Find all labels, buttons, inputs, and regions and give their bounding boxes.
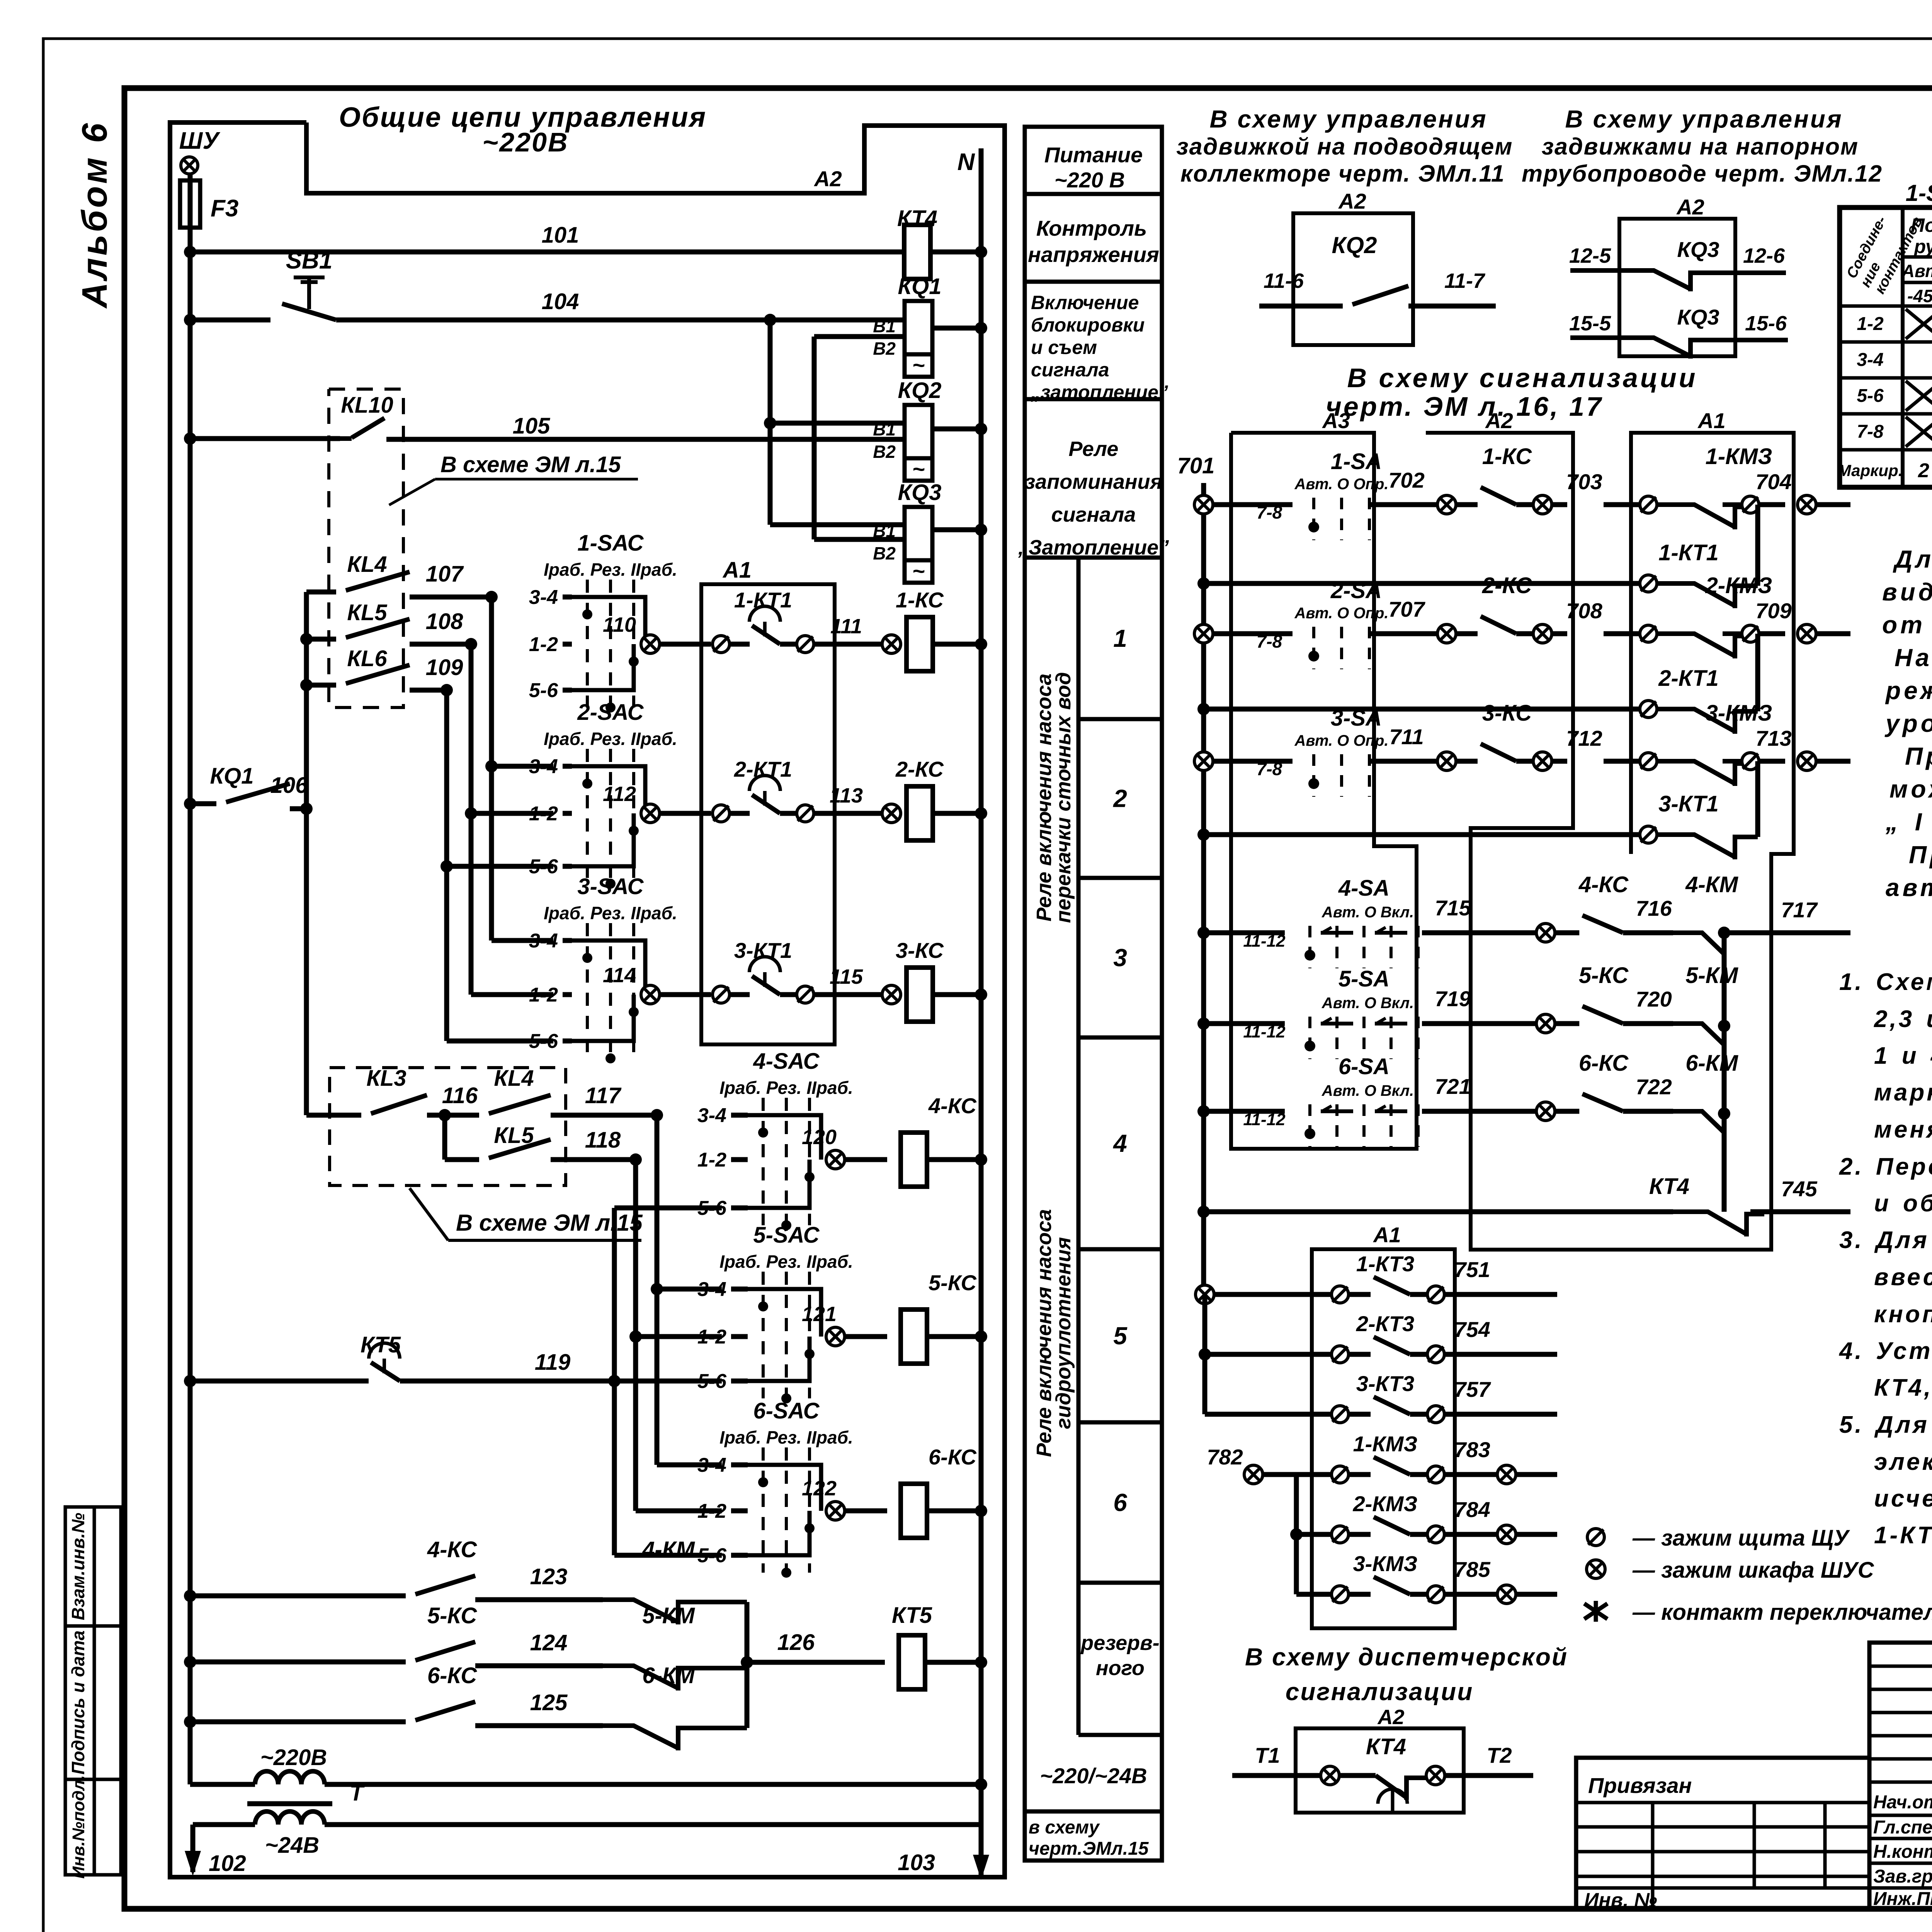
svg-text:Авт. О Опр.: Авт. О Опр.	[1294, 732, 1388, 749]
svg-text:5-КС: 5-КС	[929, 1270, 977, 1295]
function column table	[1025, 127, 1162, 1861]
svg-text:1-2: 1-2	[529, 633, 558, 656]
svg-text:При автоматическом режиме: При автоматическом режиме каждый насос	[1905, 742, 1932, 770]
svg-text:101: 101	[542, 223, 579, 248]
svg-text:гидроуплотнения: гидроуплотнения	[1052, 1237, 1075, 1429]
svg-text:В2: В2	[873, 442, 896, 462]
contact 6-КС	[184, 1716, 196, 1728]
svg-text:3-КМЗ: 3-КМЗ	[1353, 1551, 1418, 1576]
svg-text:Контроль: Контроль	[1036, 216, 1147, 240]
svg-text:2-КТ1: 2-КТ1	[734, 757, 792, 781]
svg-text:4-SАС: 4-SАС	[753, 1049, 820, 1074]
svg-text:~220 В: ~220 В	[1054, 168, 1125, 192]
svg-text:А1: А1	[722, 558, 752, 583]
svg-text:ШУ: ШУ	[179, 128, 221, 154]
svg-text:4: 4	[1112, 1129, 1127, 1157]
svg-text:сигнала: сигнала	[1031, 359, 1109, 381]
svg-text:7-8: 7-8	[1857, 422, 1884, 442]
svg-text:114: 114	[603, 964, 636, 987]
svg-text:„ I рабочий ”, „ II рабочий ”: „ I рабочий ”, „ II рабочий ” и „ Резерв…	[1885, 808, 1932, 836]
svg-text:719: 719	[1435, 986, 1471, 1011]
svg-text:2-КС: 2-КС	[895, 757, 944, 781]
svg-text:запоминания: запоминания	[1025, 470, 1163, 493]
svg-text:121: 121	[802, 1303, 837, 1326]
svg-text:1-2: 1-2	[1857, 314, 1884, 334]
svg-text:117: 117	[585, 1083, 622, 1108]
svg-text:~: ~	[912, 353, 925, 377]
contact KL10	[184, 432, 196, 445]
attribute box Подпись и дата	[65, 1626, 121, 1779]
wire 110 output 1	[641, 635, 660, 653]
svg-text:4-КМ: 4-КМ	[1685, 872, 1738, 897]
svg-text:КL5: КL5	[347, 600, 387, 625]
svg-text:1-КТ1... 3-КТ1 принять соо: 1-КТ1... 3-КТ1 принять соответственно 3,…	[1874, 1522, 1932, 1549]
svg-text:7-8: 7-8	[1257, 631, 1282, 651]
contact KL5 lower	[442, 1115, 447, 1160]
svg-text:~220В: ~220В	[260, 1745, 327, 1770]
svg-text:А3: А3	[1321, 408, 1350, 433]
svg-text:785: 785	[1454, 1557, 1490, 1582]
svg-text:125: 125	[530, 1690, 568, 1715]
svg-text:106: 106	[270, 773, 308, 798]
svg-text:751: 751	[1454, 1257, 1490, 1282]
wire feeder 3-4 chain lower	[655, 1115, 660, 1465]
svg-text:А2: А2	[813, 167, 842, 191]
svg-text:713: 713	[1755, 726, 1791, 750]
dashed box KL10 KL4-KL6	[329, 389, 403, 707]
svg-text:перекачки сточных вод: перекачки сточных вод	[1052, 672, 1075, 923]
time contact KT5 on wire 119	[184, 1375, 196, 1387]
svg-text:715: 715	[1435, 896, 1471, 920]
svg-text:4-SА: 4-SА	[1338, 876, 1389, 901]
svg-text:Нач.отд.: Нач.отд.	[1873, 1792, 1932, 1813]
time contact 2-КТ1 signal	[1197, 703, 1210, 715]
svg-text:КQ1: КQ1	[898, 274, 941, 299]
svg-text:Т2: Т2	[1486, 1743, 1512, 1767]
svg-text:12-6: 12-6	[1743, 244, 1785, 267]
svg-text:11-12: 11-12	[1243, 932, 1286, 951]
svg-text:~24В: ~24В	[265, 1833, 319, 1858]
svg-text:КL3: КL3	[366, 1066, 406, 1091]
left schematic enclosure box	[170, 122, 1005, 1877]
time contact KT4 on wire 745	[1197, 1206, 1210, 1218]
column cell ~220/~24В	[1025, 1810, 1162, 1814]
svg-text:напряжения: напряжения	[1028, 242, 1159, 267]
svg-text:1-КМЗ: 1-КМЗ	[1706, 444, 1772, 469]
svg-text:4-КС: 4-КС	[928, 1094, 977, 1118]
svg-text:Авт. О Опр.: Авт. О Опр.	[1294, 476, 1388, 493]
push-button SB1	[184, 314, 196, 326]
wire 102 with arrow	[190, 1825, 196, 1872]
contact KL5	[300, 633, 313, 645]
svg-text:3-КС: 3-КС	[896, 938, 944, 963]
wire 122 output 6	[826, 1502, 845, 1520]
svg-text:А2: А2	[1676, 195, 1704, 219]
svg-text:3: 3	[1113, 944, 1127, 972]
svg-text:102: 102	[209, 1851, 246, 1876]
svg-text:В схему управления: В схему управления	[1209, 105, 1487, 133]
svg-text:11-7: 11-7	[1444, 269, 1486, 293]
svg-text:2,3 и 5,6 схемы соответс: 2,3 и 5,6 схемы соответственно аналогичн…	[1874, 1006, 1932, 1032]
title block Привязан table	[1576, 1758, 1869, 1909]
svg-text:119: 119	[535, 1350, 570, 1375]
svg-text:111: 111	[830, 615, 862, 638]
svg-text:Авт. О Опр.: Авт. О Опр.	[1294, 605, 1388, 622]
svg-text:F3: F3	[211, 195, 238, 222]
svg-text:Насосы гидроуплотнения в: Насосы гидроуплотнения в автоматическом	[1895, 644, 1932, 672]
svg-text:Реле: Реле	[1069, 437, 1119, 461]
svg-text:3-4: 3-4	[529, 586, 558, 609]
svg-text:782: 782	[1207, 1445, 1243, 1469]
svg-text:КQ3: КQ3	[1677, 237, 1719, 262]
svg-text:В схеме ЭМ л.15: В схеме ЭМ л.15	[440, 452, 621, 477]
wire KQ outputs to N	[932, 326, 981, 331]
svg-text:704: 704	[1755, 469, 1791, 494]
svg-text:ввести блокировку от зат: ввести блокировку от затопления нажатием	[1874, 1264, 1932, 1291]
time contact 1-КТ1 signal	[1197, 577, 1210, 590]
svg-text:4-КМ: 4-КМ	[642, 1537, 695, 1562]
svg-text:2-КТ3: 2-КТ3	[1356, 1311, 1414, 1336]
svg-text:Т1: Т1	[1255, 1743, 1280, 1767]
svg-text:КQ3: КQ3	[898, 480, 941, 505]
attribute box Взам.инв.№	[65, 1507, 121, 1626]
svg-text:Авт. О Вкл.: Авт. О Вкл.	[1321, 904, 1414, 921]
svg-text:105: 105	[513, 413, 551, 439]
device box A1 (left schematic)	[701, 584, 835, 1044]
svg-text:784: 784	[1454, 1497, 1490, 1522]
wire feeder 5-6 chain	[444, 690, 449, 1041]
svg-text:7-8: 7-8	[1257, 502, 1282, 522]
svg-text:120: 120	[802, 1126, 837, 1149]
wire 124	[475, 1663, 603, 1668]
svg-text:черт.ЭМл.15: черт.ЭМл.15	[1029, 1838, 1149, 1859]
wire feeder 3-4 chain	[489, 597, 494, 940]
wire 719 rung 5-SA	[1197, 1017, 1210, 1030]
svg-text:1-КТ1: 1-КТ1	[1658, 540, 1719, 565]
svg-text:3-4: 3-4	[697, 1104, 726, 1127]
svg-text:черт. ЭМ л. 16, 17: черт. ЭМ л. 16, 17	[1326, 391, 1603, 422]
svg-text:2-КМЗ: 2-КМЗ	[1353, 1492, 1418, 1516]
svg-text:и общих цепей.: и общих цепей.	[1874, 1190, 1932, 1217]
wire feeder 1-2 chain lower	[633, 1160, 638, 1511]
svg-text:В2: В2	[873, 338, 896, 359]
attribute box Инв.№подл.	[65, 1779, 121, 1875]
contact 5-КС	[184, 1656, 196, 1668]
svg-text:5-КС: 5-КС	[1579, 963, 1629, 988]
svg-text:124: 124	[530, 1630, 568, 1655]
wire 121 output 5	[826, 1327, 845, 1346]
svg-text:109: 109	[426, 655, 463, 680]
svg-text:2: 2	[1918, 459, 1929, 482]
svg-text:701: 701	[1177, 453, 1215, 478]
svg-text:717: 717	[1781, 898, 1818, 922]
wire 105	[386, 437, 905, 442]
svg-text:N: N	[957, 149, 975, 175]
transformer T core	[247, 1801, 332, 1806]
svg-text:1-SАС: 1-SАС	[577, 531, 644, 556]
wire 702 rung 1-SA	[1194, 495, 1213, 514]
svg-text:6-КМ: 6-КМ	[642, 1663, 695, 1688]
svg-text:5-КС: 5-КС	[427, 1603, 477, 1628]
svg-text:Авт. О Вкл.: Авт. О Вкл.	[1321, 995, 1414, 1012]
svg-text:Маркир.: Маркир.	[1838, 461, 1903, 480]
svg-text:меняются на 2,3 и 5,6: меняются на 2,3 и 5,6.	[1874, 1116, 1932, 1143]
svg-text:автоматически включается р: автоматически включается резервный	[1886, 874, 1932, 901]
svg-text:исчезновения напряжения , в: исчезновения напряжения , выдержку време…	[1874, 1485, 1932, 1512]
svg-text:5-SАС: 5-SАС	[753, 1223, 820, 1248]
wire 123	[475, 1597, 603, 1602]
wire 120 output 4	[826, 1150, 845, 1169]
svg-text:— контакт переключателя н: — контакт переключателя не используется	[1632, 1600, 1932, 1625]
wire 112 output 2	[641, 804, 660, 823]
svg-text:А2: А2	[1485, 408, 1513, 433]
svg-text:5-6: 5-6	[1857, 386, 1884, 406]
svg-text:блокировки: блокировки	[1031, 314, 1145, 336]
svg-text:707: 707	[1388, 597, 1425, 621]
svg-text:15-5: 15-5	[1569, 312, 1611, 335]
svg-text:Для насосов 1... 6 предусм: Для насосов 1... 6 предусматривается два	[1893, 545, 1932, 573]
svg-text:745: 745	[1781, 1177, 1817, 1201]
column cells numbered 1-6	[1077, 558, 1081, 1735]
svg-text:757: 757	[1454, 1377, 1491, 1401]
wire B1 feeds	[768, 320, 773, 525]
wire 114 output 3	[641, 985, 660, 1004]
svg-text:Н.контр.: Н.контр.	[1873, 1842, 1932, 1862]
svg-text:1-КТ1: 1-КТ1	[734, 588, 792, 612]
svg-text:Iраб. Рез. IIраб.: Iраб. Рез. IIраб.	[544, 560, 677, 580]
svg-text:11-6: 11-6	[1264, 269, 1304, 293]
svg-text:Гл.спец.: Гл.спец.	[1873, 1817, 1932, 1838]
svg-text:2: 2	[1113, 785, 1127, 813]
svg-text:— зажим шкафа ШУС: — зажим шкафа ШУС	[1632, 1558, 1874, 1583]
svg-text:задвижкой на подводящем: задвижкой на подводящем	[1177, 133, 1513, 160]
svg-text:электродвигателей насосов: электродвигателей насосов 1... 3 после к…	[1874, 1449, 1932, 1475]
svg-text:А2: А2	[1338, 189, 1366, 213]
svg-text:103: 103	[898, 1850, 935, 1875]
svg-text:5. Для предотвращения одно: 5. Для предотвращения одновременного сам…	[1839, 1412, 1932, 1438]
svg-text:Инв.№подл.: Инв.№подл.	[69, 1775, 88, 1879]
vertical feeder from 106	[304, 592, 309, 1115]
wire 745	[1750, 1209, 1850, 1214]
time contact 3-КТ1 signal	[1197, 828, 1210, 841]
contact KQ1 on wire 106	[184, 798, 196, 810]
svg-text:2-SАС: 2-SАС	[577, 700, 644, 725]
svg-text:7-8: 7-8	[1257, 759, 1282, 779]
svg-text:5-КМ: 5-КМ	[1685, 963, 1738, 988]
svg-text:А1: А1	[1372, 1223, 1401, 1247]
svg-text:При аварийном отключении: При аварийном отключении рабочего насоса	[1909, 841, 1932, 869]
svg-text:КL4: КL4	[347, 552, 387, 577]
svg-text:КL6: КL6	[347, 646, 387, 671]
bus ШУ vertical	[188, 228, 193, 1784]
svg-text:6-КС: 6-КС	[427, 1663, 477, 1688]
svg-text:754: 754	[1454, 1317, 1490, 1342]
svg-text:Авт. О Вкл.: Авт. О Вкл.	[1321, 1082, 1414, 1099]
svg-text:КТ4, КТ5 - 3с и уточнить: КТ4, КТ5 - 3с и уточнить при наладке и э…	[1874, 1374, 1932, 1401]
svg-text:107: 107	[426, 561, 464, 587]
svg-text:113: 113	[830, 784, 863, 807]
wire 717	[1718, 927, 1730, 939]
svg-text:2-КТ1: 2-КТ1	[1658, 666, 1719, 691]
bus for KT3 rungs	[1202, 1294, 1207, 1414]
svg-text:Альбом 6: Альбом 6	[75, 121, 114, 309]
svg-text:6-SА: 6-SА	[1338, 1054, 1389, 1079]
svg-text:КQ1: КQ1	[210, 764, 253, 789]
svg-text:6-КМ: 6-КМ	[1685, 1051, 1738, 1076]
svg-text:~: ~	[912, 559, 925, 583]
svg-text:~220/~24В: ~220/~24В	[1040, 1764, 1147, 1788]
fuse F3	[188, 174, 193, 252]
legend зажим щита ЩУ	[1587, 1529, 1604, 1546]
svg-text:В схему диспетчерской: В схему диспетчерской	[1245, 1643, 1568, 1671]
svg-text:Iраб. Рез. IIраб.: Iраб. Рез. IIраб.	[544, 729, 677, 749]
svg-text:КТ4: КТ4	[1366, 1734, 1406, 1759]
svg-text:Привязан: Привязан	[1588, 1773, 1692, 1798]
svg-text:720: 720	[1636, 987, 1672, 1011]
wire feeder 1-2 chain	[469, 644, 474, 995]
wire 104	[336, 318, 770, 323]
svg-text:126: 126	[777, 1630, 815, 1655]
svg-text:КQ2: КQ2	[1332, 232, 1377, 258]
svg-text:КQ3: КQ3	[1677, 305, 1719, 329]
svg-text:721: 721	[1435, 1074, 1471, 1099]
svg-text:уровня в баке разрыва: уровня в баке разрыва струи.	[1884, 709, 1932, 737]
contact KL6	[300, 679, 313, 691]
svg-text:В1: В1	[873, 419, 896, 439]
svg-text:2. Перечень элементов при: 2. Перечень элементов приведен для приво…	[1839, 1153, 1932, 1180]
svg-text:маркировки цепей , обозначаю: маркировки цепей , обозначающие номер пр…	[1874, 1079, 1932, 1106]
svg-text:КТ5: КТ5	[892, 1603, 932, 1628]
svg-text:3-4: 3-4	[1857, 350, 1883, 370]
wire 117	[551, 1113, 657, 1118]
svg-text:702: 702	[1388, 468, 1424, 492]
svg-text:А2: А2	[1377, 1706, 1404, 1729]
svg-text:В1: В1	[873, 521, 896, 541]
wire 107	[410, 595, 492, 600]
svg-text:Взам.инв.№: Взам.инв.№	[68, 1513, 88, 1621]
svg-text:вида управления: автоматичес: вида управления: автоматическое в зависи…	[1882, 578, 1932, 606]
wire 711 rung 3-SA	[1194, 752, 1213, 770]
svg-text:Питание: Питание	[1044, 143, 1143, 167]
svg-text:712: 712	[1566, 726, 1602, 750]
svg-text:кнопки SВ1, которая установ: кнопки SВ1, которая установлена на шкафу…	[1874, 1301, 1932, 1328]
column cell резервного	[1078, 1733, 1162, 1737]
svg-text:110: 110	[603, 613, 636, 636]
svg-text:сигнализации: сигнализации	[1286, 1678, 1474, 1706]
svg-text:1 и 4 в левой части обоз: 1 и 4 в левой части обозначений аппарато…	[1874, 1043, 1932, 1069]
wire 108	[410, 642, 471, 647]
svg-text:3-КТ1: 3-КТ1	[734, 938, 792, 963]
bus N vertical	[979, 148, 984, 1825]
svg-text:6-КС: 6-КС	[1579, 1051, 1629, 1076]
svg-text:Авт.: Авт.	[1901, 261, 1932, 281]
svg-text:11-12: 11-12	[1243, 1022, 1286, 1041]
svg-text:5-SА: 5-SА	[1338, 966, 1389, 992]
svg-text:3-КС: 3-КС	[1482, 701, 1532, 726]
svg-text:3-SАС: 3-SАС	[577, 874, 644, 899]
svg-text:123: 123	[530, 1564, 568, 1589]
wire 103 with arrow	[979, 1825, 984, 1876]
svg-text:от уровней в приемном резе: от уровней в приемном резервуаре и опроб…	[1882, 611, 1932, 639]
svg-text:сигнала: сигнала	[1051, 503, 1136, 526]
svg-text:Подпись и дата: Подпись и дата	[68, 1631, 88, 1775]
title block signature table	[1869, 1643, 1932, 1909]
svg-text:SB1: SB1	[286, 247, 333, 274]
svg-text:„затопление”: „затопление”	[1031, 381, 1168, 403]
svg-text:Iраб. Рез. IIраб.: Iраб. Рез. IIраб.	[719, 1427, 853, 1447]
svg-text:116: 116	[442, 1083, 478, 1108]
svg-text:711: 711	[1389, 724, 1423, 749]
svg-text:Т: Т	[350, 1781, 365, 1806]
svg-text:4-КС: 4-КС	[1578, 872, 1629, 897]
svg-text:Зав.гр.: Зав.гр.	[1873, 1866, 1932, 1887]
svg-text:122: 122	[802, 1477, 837, 1500]
svg-text:1-SА: 1-SА	[1906, 180, 1932, 206]
svg-text:3-КТ1: 3-КТ1	[1658, 791, 1719, 816]
svg-text:1-КТ3: 1-КТ3	[1356, 1252, 1414, 1276]
svg-text:783: 783	[1454, 1437, 1490, 1462]
svg-text:КL4: КL4	[494, 1066, 534, 1091]
svg-text:В схему управления: В схему управления	[1565, 105, 1843, 133]
svg-text:-45°: -45°	[1907, 286, 1932, 306]
svg-text:1-SА: 1-SА	[1331, 449, 1382, 474]
wire 118	[551, 1157, 636, 1162]
svg-text:1-КС: 1-КС	[1482, 444, 1532, 469]
wire 126	[747, 1660, 885, 1665]
svg-text:ного: ного	[1096, 1656, 1145, 1680]
wire B2 loop	[814, 334, 905, 339]
svg-text:722: 722	[1636, 1075, 1672, 1099]
svg-text:11-12: 11-12	[1243, 1110, 1286, 1129]
wire 125	[475, 1723, 603, 1728]
svg-text:резерв-: резерв-	[1080, 1631, 1159, 1655]
svg-text:108: 108	[426, 609, 464, 634]
svg-text:Включение: Включение	[1031, 292, 1139, 313]
svg-text:в схему: в схему	[1029, 1817, 1100, 1838]
svg-text:1: 1	[1113, 624, 1127, 652]
contact 4-КС	[184, 1590, 196, 1602]
svg-text:118: 118	[585, 1128, 621, 1153]
svg-text:112: 112	[603, 782, 636, 806]
svg-text:709: 709	[1755, 599, 1791, 623]
svg-text:коллекторе черт. ЭМл.11: коллекторе черт. ЭМл.11	[1180, 160, 1505, 187]
svg-text:1-КС: 1-КС	[896, 588, 944, 612]
svg-text:может работать в одном: может работать в одном из трех режимов	[1889, 775, 1932, 803]
svg-text:задвижками на напорном: задвижками на напорном	[1542, 133, 1859, 160]
wire KM holding vertical	[1722, 935, 1727, 1212]
dashed box KL3-KL5	[330, 1068, 566, 1185]
svg-text:1-КМЗ: 1-КМЗ	[1353, 1432, 1418, 1456]
transformer T secondary ~24В	[255, 1811, 325, 1825]
svg-text:115: 115	[830, 965, 863, 988]
svg-text:В схему сигнализации: В схему сигнализации	[1347, 363, 1697, 393]
svg-text:6: 6	[1113, 1489, 1127, 1517]
svg-text:Iраб. Рез. IIраб.: Iраб. Рез. IIраб.	[719, 1078, 853, 1098]
svg-text:„Затопление”: „Затопление”	[1018, 536, 1169, 559]
wire 109	[410, 688, 447, 693]
svg-text:Iраб. Рез. IIраб.: Iраб. Рез. IIраб.	[544, 903, 677, 923]
wire collector to 126	[745, 1602, 750, 1728]
svg-text:3. Для обеспечения работы: 3. Для обеспечения работы схемы необходи…	[1839, 1227, 1932, 1253]
svg-text:5-КМ: 5-КМ	[642, 1603, 695, 1628]
svg-text:1-2: 1-2	[697, 1149, 726, 1171]
legend зажим шкафа ШУС	[1587, 1560, 1605, 1578]
legend контакт не используется	[1584, 1601, 1607, 1622]
svg-text:Iраб. Рез. IIраб.: Iраб. Рез. IIраб.	[719, 1252, 853, 1272]
svg-text:12-5: 12-5	[1569, 244, 1611, 267]
svg-text:~: ~	[912, 457, 925, 481]
bus for KM3 rungs	[1294, 1475, 1299, 1594]
